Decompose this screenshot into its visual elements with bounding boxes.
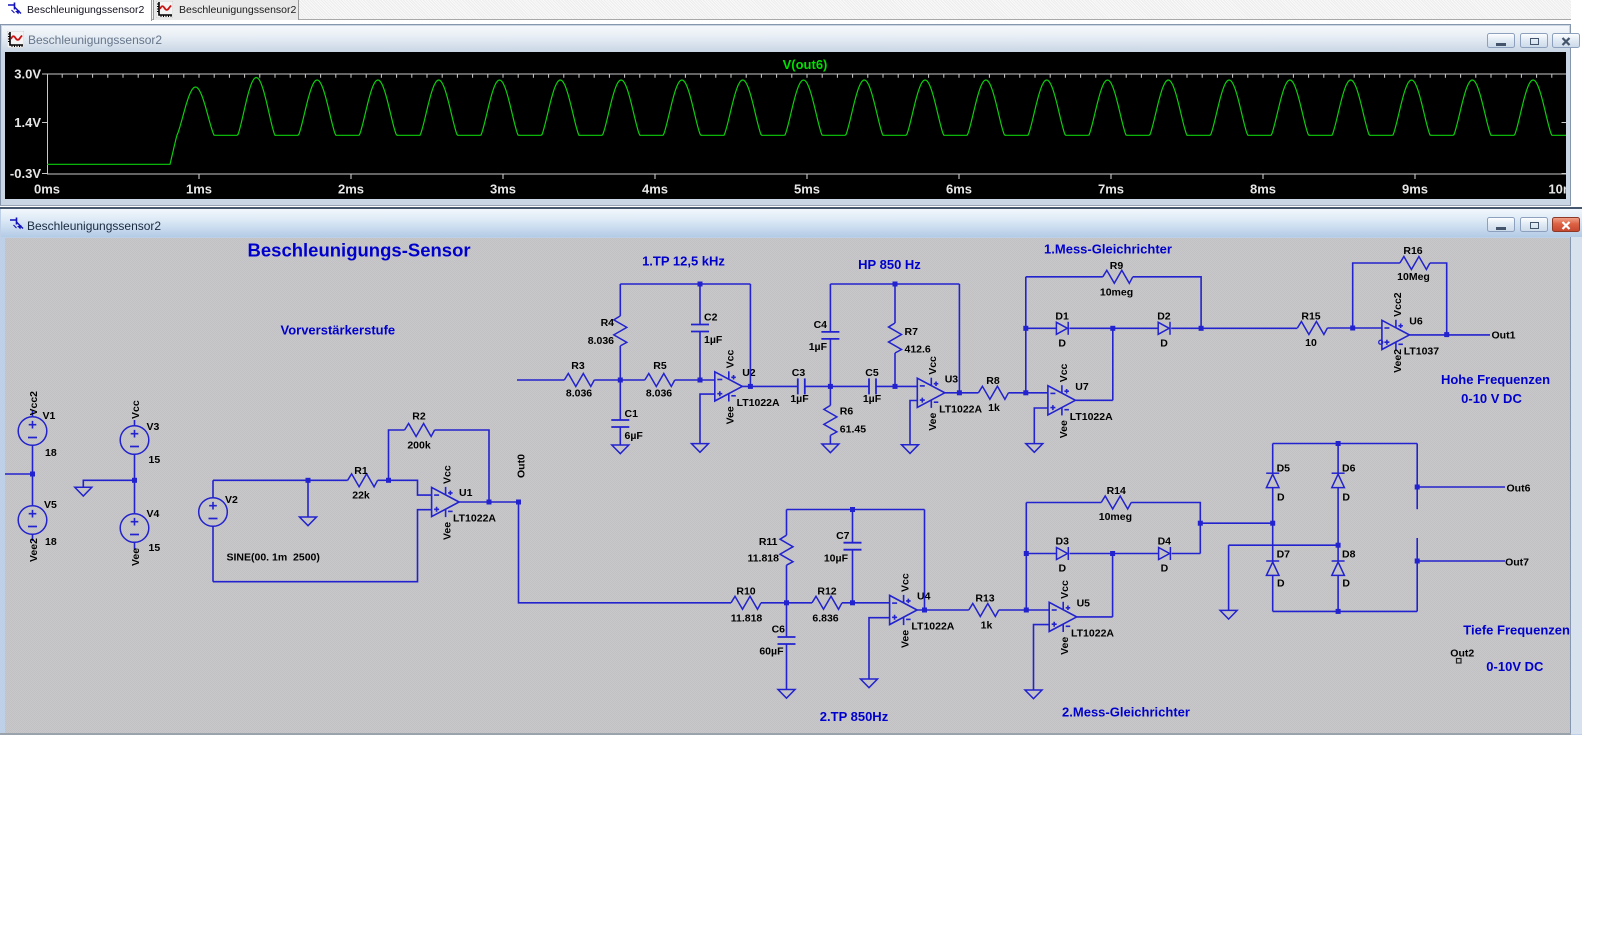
node V1-V5 junction	[30, 472, 35, 477]
node U1 feedback junction	[487, 500, 492, 505]
resistor R8	[978, 386, 1008, 399]
svg-text:D7: D7	[1277, 549, 1291, 561]
svg-text:6µF: 6µF	[625, 430, 644, 442]
wire 2TP feedback down	[924, 510, 926, 611]
wire C6 to ground	[786, 644, 788, 690]
svg-text:U6: U6	[1409, 316, 1423, 328]
capacitor C4	[821, 332, 839, 339]
svg-text:412.6: 412.6	[905, 344, 931, 356]
node D8 top junction	[1336, 543, 1341, 548]
svg-text:R5: R5	[653, 360, 667, 372]
node HP input junction	[828, 384, 833, 389]
wire to D1	[1026, 327, 1057, 329]
svg-text:Out6: Out6	[1507, 483, 1531, 495]
resistor R2	[405, 424, 435, 437]
svg-text:R7: R7	[905, 326, 919, 338]
svg-text:8.036: 8.036	[646, 388, 672, 400]
svg-text:D: D	[1342, 578, 1350, 590]
wire C2 to node B	[699, 332, 701, 381]
trace V(out6) green curve	[47, 78, 1567, 165]
svg-text:Vee2: Vee2	[28, 538, 40, 562]
node C7 rail junction	[850, 507, 855, 512]
schematic title text	[27, 219, 161, 233]
wire U3 out to R8	[945, 392, 979, 394]
ground at U3 +	[902, 445, 919, 454]
ground at U4 +	[861, 679, 878, 688]
wire to D3	[1026, 553, 1056, 555]
waveform title icon	[7, 31, 24, 53]
U6 balance circle	[1379, 340, 1383, 344]
svg-text:Vee: Vee	[900, 630, 912, 648]
svg-text:15: 15	[149, 454, 161, 466]
node D junction	[784, 600, 789, 605]
waveform title text	[28, 33, 162, 47]
op-amp U7	[1048, 385, 1076, 415]
wire R16 to output	[1430, 263, 1447, 335]
svg-text:R13: R13	[975, 593, 994, 605]
resistor R10	[731, 596, 761, 609]
wire node to U1 inverting input	[389, 480, 432, 495]
wire node A to C1	[619, 380, 621, 420]
svg-text:Vcc: Vcc	[927, 356, 939, 375]
waveform close button	[1552, 33, 1580, 48]
svg-text:D: D	[1277, 492, 1285, 504]
diode D2	[1158, 322, 1170, 335]
capacitor C1	[611, 420, 629, 427]
wire R13 to rect2 input	[999, 609, 1049, 611]
wire R12 to node E	[842, 602, 890, 604]
op-amp U1	[432, 487, 460, 517]
wire U7 noninverting to ground	[1034, 408, 1048, 444]
svg-text:15: 15	[149, 542, 161, 554]
svg-text:R11: R11	[759, 536, 778, 548]
svg-text:2.TP 850Hz: 2.TP 850Hz	[820, 709, 889, 724]
svg-text:D8: D8	[1342, 549, 1356, 561]
diode D7	[1266, 561, 1279, 575]
svg-text:V1: V1	[43, 410, 56, 422]
svg-text:R15: R15	[1301, 311, 1320, 323]
svg-text:D: D	[1160, 338, 1168, 350]
wire top to D6	[1337, 444, 1339, 474]
svg-text:Vee: Vee	[927, 413, 939, 431]
tab 2 label	[179, 4, 296, 16]
node D1 anode junction	[1023, 326, 1028, 331]
wire D8 to bottom rail	[1337, 575, 1339, 611]
wire rail to R7	[894, 284, 896, 323]
wire rect2 top rail left	[1026, 502, 1101, 504]
node rect1 mid junction	[1110, 326, 1115, 331]
svg-text:3.0V: 3.0V	[14, 67, 41, 82]
waveform y-axis labels	[10, 67, 41, 182]
waveform top minor ticks	[62, 75, 1552, 78]
resistor R7	[889, 323, 902, 353]
svg-text:8.036: 8.036	[588, 335, 614, 347]
wire rail to C4	[829, 284, 831, 332]
svg-text:U7: U7	[1075, 381, 1089, 393]
svg-text:Vcc: Vcc	[1058, 363, 1070, 382]
svg-text:7ms: 7ms	[1098, 182, 1124, 197]
op-amp U4	[890, 595, 918, 625]
diode D3	[1057, 547, 1069, 560]
svg-text:C3: C3	[792, 367, 806, 379]
node E junction	[850, 600, 855, 605]
wire U6 feedback up	[1353, 263, 1400, 328]
waveform x-axis labels	[34, 182, 1582, 197]
wire V1 to V5	[32, 474, 34, 506]
svg-text:D: D	[1161, 563, 1169, 575]
svg-text:C5: C5	[865, 367, 879, 379]
waveform bottom major ticks	[199, 174, 1415, 179]
wire 1TP feedback down	[749, 284, 751, 386]
wire R2 to U1 output	[435, 430, 489, 502]
svg-text:D: D	[1059, 563, 1067, 575]
resistor R12	[812, 596, 842, 609]
node B junction	[698, 378, 703, 383]
svg-text:6.836: 6.836	[812, 613, 838, 625]
wire rect1 left rail up	[1025, 277, 1027, 393]
svg-text:R9: R9	[1110, 260, 1124, 272]
wire R11 top to rail2	[786, 510, 788, 536]
resistor R6	[824, 405, 837, 435]
tab 2 icon	[156, 1, 173, 23]
node rect1 input junction	[1023, 390, 1028, 395]
svg-text:2ms: 2ms	[338, 182, 364, 197]
op-amp U5	[1049, 602, 1077, 632]
svg-text:HP 850 Hz: HP 850 Hz	[858, 257, 921, 272]
svg-text:8ms: 8ms	[1250, 182, 1276, 197]
svg-text:LT1022A: LT1022A	[939, 403, 982, 415]
svg-text:C6: C6	[772, 624, 786, 636]
wire bridge bottom rail	[1273, 610, 1418, 612]
svg-text:10meg: 10meg	[1100, 287, 1133, 299]
wire C5 to node C	[876, 385, 917, 387]
svg-text:Vcc: Vcc	[442, 465, 454, 484]
wire R5 to node B	[675, 379, 715, 381]
wire to Out6	[1417, 486, 1505, 488]
svg-text:10ms: 10ms	[1548, 182, 1566, 197]
svg-text:18: 18	[45, 447, 57, 459]
svg-text:R10: R10	[736, 586, 755, 598]
wire node A to R5	[620, 379, 645, 381]
svg-text:9ms: 9ms	[1402, 182, 1428, 197]
wire 2TP top rail	[787, 509, 925, 511]
wire rect2 top rail right	[1131, 503, 1200, 554]
svg-text:R14: R14	[1107, 485, 1126, 497]
capacitor C7	[844, 543, 862, 550]
svg-text:10: 10	[1305, 337, 1317, 349]
svg-text:V3: V3	[147, 421, 160, 433]
svg-text:LT1022A: LT1022A	[1071, 628, 1114, 640]
svg-text:1ms: 1ms	[186, 182, 212, 197]
svg-text:10µF: 10µF	[824, 553, 849, 565]
schematic min button	[1487, 217, 1515, 232]
svg-text:V4: V4	[147, 508, 160, 520]
svg-text:LT1022A: LT1022A	[453, 513, 496, 525]
wire D4 to rect2 output	[1172, 553, 1201, 555]
node D3 anode junction	[1024, 551, 1029, 556]
diode D6	[1332, 473, 1345, 487]
wire U7 out to mid	[1075, 399, 1112, 401]
wire bridge right bottom	[1416, 538, 1418, 611]
wire U4 out to R13	[917, 609, 969, 611]
tab 1 label	[27, 4, 144, 16]
wire R10 to node D	[761, 602, 787, 604]
ground at U5 +	[1025, 690, 1042, 699]
svg-text:Vcc: Vcc	[1059, 580, 1071, 599]
wire rect1 top rail left	[1026, 276, 1103, 278]
svg-text:4ms: 4ms	[642, 182, 668, 197]
wire R15 to U6 node	[1327, 327, 1382, 329]
svg-text:0-10 V DC: 0-10 V DC	[1461, 391, 1522, 406]
capacitor C3	[798, 378, 805, 394]
op-amp U3	[917, 378, 945, 408]
wire HP top rail	[830, 283, 959, 285]
ground at bridge	[1220, 610, 1237, 619]
wire R3 to node A	[594, 379, 620, 381]
svg-text:C4: C4	[814, 319, 828, 331]
wire R7 to node C	[894, 353, 896, 386]
svg-text:0-10V DC: 0-10V DC	[1486, 659, 1544, 674]
wire U2 noninverting to ground	[700, 394, 715, 444]
svg-text:V(out6): V(out6)	[783, 57, 828, 72]
svg-text:SINE(00. 1m 2500): SINE(00. 1m 2500)	[227, 552, 320, 564]
diode D1	[1056, 322, 1068, 335]
wire bridge right top	[1416, 444, 1418, 510]
diode D4	[1159, 547, 1171, 560]
svg-text:200k: 200k	[407, 440, 431, 452]
node U3 output junction	[957, 390, 962, 395]
node V3-V4 junction	[132, 478, 137, 483]
wire feedback up to R2	[389, 430, 405, 480]
wire to left edge from V1/V5 node	[5, 473, 33, 475]
resistor R16	[1400, 257, 1430, 270]
svg-text:C7: C7	[836, 530, 850, 542]
svg-text:Vcc2: Vcc2	[28, 391, 40, 416]
waveform black client area	[5, 52, 1566, 199]
svg-text:Beschleunigungs-Sensor: Beschleunigungs-Sensor	[248, 240, 471, 261]
diode D8	[1332, 561, 1345, 575]
tab 1 icon	[7, 1, 22, 22]
svg-text:Vee: Vee	[442, 522, 454, 540]
tab 1 (active, schematic)	[0, 0, 152, 21]
svg-text:Vee: Vee	[725, 406, 737, 424]
voltage source V3	[120, 420, 149, 480]
wire bridge top rail	[1273, 443, 1418, 445]
node U6 input junction	[1350, 326, 1355, 331]
wire gnd arm to D8 node	[1229, 544, 1339, 546]
wire R8 to rect1 input	[1008, 392, 1048, 394]
node A junction	[618, 378, 623, 383]
resistor R11	[780, 535, 793, 565]
waveform window frame	[0, 24, 1571, 206]
svg-text:1µF: 1µF	[809, 341, 828, 353]
wire junction to ground arm	[83, 480, 134, 487]
wire D5 to left node	[1272, 488, 1274, 561]
op-amp U6	[1382, 320, 1410, 350]
wire junction to V4	[134, 480, 136, 513]
ground below input node	[300, 517, 317, 526]
wire R1 to feedback node	[378, 479, 389, 481]
svg-text:61.45: 61.45	[840, 424, 866, 436]
wire U2 out	[742, 385, 798, 387]
svg-text:10Meg: 10Meg	[1397, 271, 1430, 283]
schematic bottom edge	[0, 733, 1571, 735]
svg-text:LT1022A: LT1022A	[1070, 411, 1113, 423]
wire node D to R12	[787, 602, 813, 604]
wire U1 output to Out0	[459, 501, 518, 503]
svg-text:C1: C1	[625, 408, 639, 420]
capacitor C5	[869, 378, 876, 394]
svg-text:R3: R3	[571, 360, 585, 372]
svg-text:U2: U2	[742, 367, 756, 379]
wire U5 noninverting to ground	[1034, 625, 1050, 690]
schematic title bar	[1, 209, 1582, 237]
svg-text:Vee: Vee	[1058, 420, 1070, 438]
node C2 rail junction	[698, 282, 703, 287]
ground below C1	[612, 445, 629, 454]
wire HP node to C5	[830, 385, 869, 387]
svg-text:Vee2: Vee2	[1392, 349, 1404, 373]
capacitor C2	[691, 325, 709, 332]
svg-text:D6: D6	[1342, 463, 1356, 475]
node rect1 output junction	[1199, 326, 1204, 331]
node Out7 junction	[1415, 559, 1420, 564]
wire gnd arm down	[1228, 545, 1230, 610]
node Out0 junction	[516, 500, 521, 505]
ground below R6	[822, 444, 839, 453]
wire mid node down to U7 out	[1112, 328, 1114, 400]
node R1 input junction	[306, 478, 311, 483]
wire R4 top to rail	[619, 284, 621, 316]
wire input node down to ground	[307, 480, 309, 517]
svg-text:R8: R8	[986, 375, 1000, 387]
svg-text:C2: C2	[704, 312, 718, 324]
svg-text:Vorverstärkerstufe: Vorverstärkerstufe	[281, 323, 396, 338]
svg-text:11.818: 11.818	[731, 613, 763, 625]
MDI tab bar	[0, 0, 1571, 20]
svg-text:LT1037: LT1037	[1404, 345, 1440, 357]
node bridge left junction	[1270, 521, 1275, 526]
svg-text:Vee: Vee	[130, 548, 142, 566]
svg-text:1µF: 1µF	[704, 334, 723, 346]
resistor R9	[1103, 270, 1133, 283]
schematic close button	[1552, 217, 1580, 232]
svg-text:U3: U3	[945, 373, 959, 385]
node Out6 junction	[1415, 485, 1420, 490]
svg-text:1.TP 12,5 kHz: 1.TP 12,5 kHz	[642, 254, 725, 269]
svg-text:Out2: Out2	[1450, 648, 1474, 660]
node R7 rail junction	[893, 282, 898, 287]
wire U6 out to Out1	[1409, 334, 1490, 336]
svg-text:Hohe Frequenzen: Hohe Frequenzen	[1441, 372, 1550, 387]
svg-text:3ms: 3ms	[490, 182, 516, 197]
wire C1 to ground	[619, 427, 621, 445]
svg-text:Vee: Vee	[1059, 637, 1071, 655]
wire U5 out to mid	[1077, 616, 1113, 618]
svg-text:D: D	[1277, 578, 1285, 590]
wire U4 noninverting to ground	[869, 618, 890, 679]
resistor R1	[348, 474, 378, 487]
tab 2 (inactive, waveform)	[153, 0, 299, 20]
ground below C6	[778, 690, 795, 699]
wire V2 top to R1 input node	[213, 479, 348, 481]
resistor R5	[645, 374, 675, 387]
svg-text:1k: 1k	[981, 620, 993, 632]
resistor R4	[614, 316, 627, 346]
schematic window top edge	[0, 207, 1582, 209]
waveform y-axis ticks	[42, 74, 1567, 174]
waveform restore button	[1520, 33, 1548, 48]
svg-text:-0.3V: -0.3V	[10, 166, 41, 181]
svg-text:6ms: 6ms	[946, 182, 972, 197]
svg-text:1µF: 1µF	[863, 393, 882, 405]
wire mid node down to U5 out	[1112, 554, 1114, 617]
svg-text:Vcc: Vcc	[725, 350, 737, 369]
wire rect2 left rail up	[1025, 503, 1027, 611]
wire V2 bottom to U1 noninverting input	[213, 510, 432, 582]
svg-text:D4: D4	[1158, 536, 1172, 548]
svg-text:R4: R4	[601, 317, 615, 329]
svg-text:10meg: 10meg	[1099, 511, 1132, 523]
wire D2 to output node	[1171, 327, 1297, 329]
svg-text:18: 18	[45, 536, 57, 548]
svg-text:1k: 1k	[988, 402, 1000, 414]
node bridge bottom junction	[1336, 609, 1341, 614]
svg-text:D: D	[1342, 492, 1350, 504]
wire 1TP top rail	[620, 283, 750, 285]
wire rect1 top rail right	[1133, 277, 1201, 329]
svg-text:1.4V: 1.4V	[14, 115, 41, 130]
wire C7 to node E	[852, 550, 854, 603]
waveform plot pane border	[48, 74, 1567, 174]
resistor R13	[969, 604, 999, 617]
node U4 output junction	[922, 608, 927, 613]
svg-text:Vcc2: Vcc2	[1392, 292, 1404, 317]
svg-text:0ms: 0ms	[34, 182, 60, 197]
voltage source V2	[199, 480, 228, 581]
ground at U7 +	[1026, 444, 1043, 453]
node rect2 mid junction	[1110, 551, 1115, 556]
svg-text:U5: U5	[1077, 598, 1091, 610]
svg-text:D1: D1	[1055, 311, 1069, 323]
svg-text:D2: D2	[1157, 311, 1171, 323]
voltage source V1	[18, 411, 47, 474]
wire R4 bottom to node A	[619, 346, 621, 380]
svg-text:2.Mess-Gleichrichter: 2.Mess-Gleichrichter	[1062, 705, 1190, 720]
node rect2 input junction	[1024, 608, 1029, 613]
waveform min button	[1487, 33, 1515, 48]
wire R6 to ground	[829, 435, 831, 444]
svg-text:11.818: 11.818	[747, 553, 779, 565]
node bridge top junction	[1336, 441, 1341, 446]
schematic client area	[5, 238, 1570, 733]
svg-text:Tiefe Frequenzen: Tiefe Frequenzen	[1463, 623, 1570, 638]
node R1-R2 junction	[386, 478, 391, 483]
svg-text:D5: D5	[1277, 463, 1291, 475]
wire D6 to mid node	[1337, 488, 1339, 561]
node rect2 output junction	[1198, 521, 1203, 526]
svg-text:R16: R16	[1403, 245, 1422, 257]
svg-text:LT1022A: LT1022A	[737, 397, 780, 409]
wire rail2 to C7	[852, 510, 854, 543]
wire HP feedback down	[958, 284, 960, 393]
svg-text:Vcc: Vcc	[900, 573, 912, 592]
wire D1 to mid node	[1069, 327, 1158, 329]
svg-text:60µF: 60µF	[759, 646, 784, 658]
svg-text:Out1: Out1	[1492, 330, 1516, 342]
wire Out0 down to 2nd stage	[519, 502, 732, 603]
svg-text:D3: D3	[1056, 536, 1070, 548]
